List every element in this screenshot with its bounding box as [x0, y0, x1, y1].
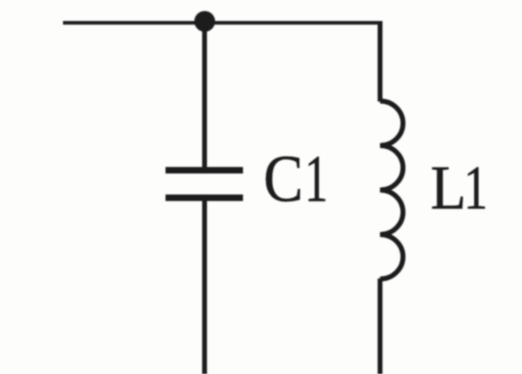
svg-text:1: 1 [464, 154, 488, 223]
svg-text:C: C [264, 142, 304, 216]
svg-text:L: L [431, 154, 467, 223]
svg-text:1: 1 [305, 141, 328, 216]
